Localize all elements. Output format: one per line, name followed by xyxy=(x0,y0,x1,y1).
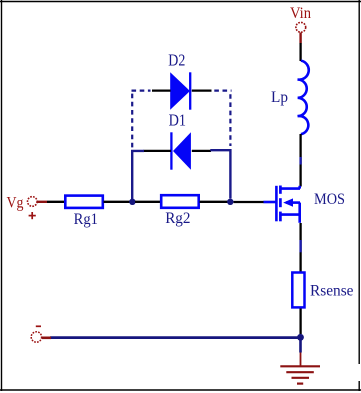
wire xyxy=(192,89,212,91)
junction xyxy=(227,199,233,205)
wire xyxy=(299,43,301,61)
wire xyxy=(299,340,302,353)
label - (negative terminal) xyxy=(36,325,41,327)
resistor Rg1 xyxy=(65,196,103,208)
wire xyxy=(192,150,211,152)
svg-text:D1: D1 xyxy=(169,111,186,130)
svg-text:Rsense: Rsense xyxy=(310,282,354,299)
junction xyxy=(129,199,135,205)
terminal Vg xyxy=(28,197,48,220)
junction xyxy=(297,334,304,341)
wire xyxy=(131,94,133,148)
diode D2 xyxy=(170,72,190,109)
wire xyxy=(299,134,301,187)
resistor Rsense xyxy=(292,273,304,308)
svg-text:Rg1: Rg1 xyxy=(74,211,98,228)
svg-text:D2: D2 xyxy=(168,50,185,69)
wire xyxy=(210,150,230,198)
wire xyxy=(50,336,298,339)
wire xyxy=(152,89,171,91)
inductor Lp xyxy=(298,61,309,135)
wire xyxy=(299,223,301,272)
diode D1 xyxy=(171,132,191,169)
terminal Vin xyxy=(296,22,306,43)
wire xyxy=(132,89,151,91)
svg-text:Vin: Vin xyxy=(290,5,311,22)
wire xyxy=(200,201,229,203)
ground xyxy=(280,353,320,384)
wire xyxy=(47,201,65,203)
svg-text:Rg2: Rg2 xyxy=(165,210,190,227)
wire xyxy=(234,201,265,203)
resistor Rg2 xyxy=(161,195,199,208)
wire xyxy=(214,89,231,91)
wire xyxy=(104,201,131,203)
svg-text:Vg: Vg xyxy=(7,194,24,211)
wire xyxy=(135,201,161,203)
svg-text:Lp: Lp xyxy=(271,89,288,106)
wire xyxy=(144,150,172,152)
transistor MOS xyxy=(264,186,301,223)
wire xyxy=(132,151,144,199)
wire xyxy=(229,94,231,146)
terminal - xyxy=(31,332,51,342)
svg-text:MOS: MOS xyxy=(314,191,345,208)
wire xyxy=(299,309,301,335)
